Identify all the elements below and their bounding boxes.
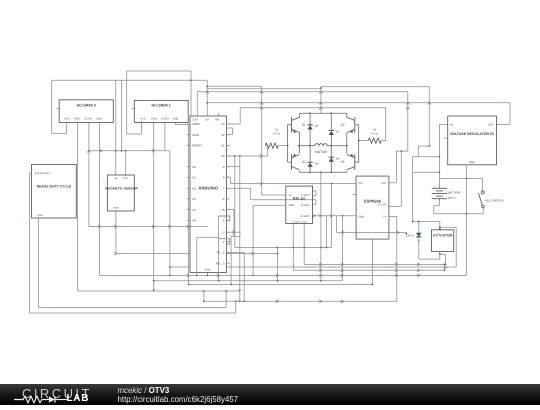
transistor Q1: [292, 117, 300, 133]
junction: [358, 140, 360, 142]
wire hop: [406, 102, 409, 105]
svg-text:ARDUINO: ARDUINO: [198, 186, 218, 191]
junction: [439, 253, 441, 255]
wire hop: [342, 231, 345, 234]
wire D2 cathode lead: [309, 146, 311, 163]
diode D1: [307, 125, 312, 130]
wire row ECHO1: [170, 266, 456, 268]
svg-text:GND: GND: [205, 269, 211, 272]
wire GND2 drop: [99, 123, 101, 276]
svg-text:A2: A2: [192, 186, 196, 190]
pin AREF stub: [187, 123, 190, 125]
svg-text:A1: A1: [192, 176, 196, 180]
svg-text:~10: ~10: [220, 154, 225, 158]
wire hop: [319, 102, 322, 105]
wire step: [417, 146, 419, 157]
junction: [439, 226, 441, 228]
HC-SR04 1 module U2: [134, 100, 188, 122]
wire R1 lead: [265, 145, 267, 147]
wire hop: [87, 150, 90, 153]
junction: [203, 290, 205, 292]
wire 12V row: [413, 221, 440, 223]
wire battery+ row: [413, 171, 440, 173]
wire U top: [440, 254, 446, 256]
wire Q2 base stub: [288, 161, 292, 163]
svg-text:TRIG: TRIG: [151, 118, 157, 121]
junction: [326, 247, 328, 249]
logo diode: [49, 396, 55, 402]
wire riser: [239, 156, 241, 301]
wire hop: [114, 225, 117, 228]
junction: [439, 156, 441, 158]
wire pin3 row: [226, 231, 240, 233]
wire 1SPDT jog: [313, 190, 317, 192]
pin ~3 stub: [226, 231, 230, 233]
wire Q3-Q4 base bar: [358, 125, 360, 162]
wire TX1 row: [226, 251, 244, 253]
junction: [303, 247, 305, 249]
wire step: [418, 145, 429, 147]
wire riser: [336, 216, 338, 233]
junction: [298, 145, 300, 147]
diode D3: [329, 130, 334, 135]
motor M1: [315, 144, 327, 146]
wire hop: [319, 91, 322, 94]
svg-text:D3: D3: [336, 131, 340, 134]
junction: [418, 221, 420, 223]
junction: [277, 280, 279, 282]
battery V1 12V: [432, 188, 447, 198]
svg-text:Vin: Vin: [215, 117, 219, 121]
wire esp gnd drop: [342, 216, 344, 281]
svg-text:BATTERY: BATTERY: [448, 191, 462, 195]
wire ECHO1 drop: [164, 123, 166, 151]
VOLTAGE REGULATOR U4: [448, 116, 497, 165]
wire U right: [445, 255, 447, 265]
pin 13 stub: [226, 123, 230, 125]
svg-text:D5: D5: [418, 240, 420, 243]
pin 4 stub: [226, 219, 230, 221]
svg-text:~5: ~5: [221, 208, 225, 212]
junction: [235, 300, 237, 302]
wire relay load1 drop: [292, 224, 294, 271]
svg-text:470 Ω: 470 Ω: [273, 132, 280, 135]
pin RESET stub: [187, 144, 190, 146]
wire hop: [260, 102, 263, 105]
wire hop: [417, 269, 420, 272]
resistor R1: [265, 143, 278, 148]
wire bridge bottom rail: [300, 171, 347, 173]
svg-text:AREF: AREF: [192, 122, 200, 126]
wire hop: [319, 269, 322, 272]
wire hop: [206, 91, 209, 94]
pin ~11 stub: [226, 144, 230, 146]
wire VCC2 to pin: [52, 132, 67, 134]
wire hop: [428, 102, 431, 105]
junction: [190, 79, 192, 81]
wire esp chpd riser: [400, 151, 402, 206]
wire relay 5V riser: [261, 86, 263, 195]
junction: [320, 171, 322, 173]
wire battery bottom lead: [438, 199, 440, 201]
svg-text:GND: GND: [173, 118, 179, 121]
wire pin10 row: [226, 155, 267, 157]
wire esp bottom pin2: [372, 239, 374, 284]
wire riser: [234, 156, 236, 248]
wire hop: [251, 252, 254, 255]
wire pin5 row: [226, 209, 234, 211]
wire pin9 row: [226, 166, 239, 168]
wire switch bottom: [482, 209, 484, 214]
wire hop: [341, 274, 344, 277]
wire Q4 column: [346, 146, 348, 154]
wire D3 anode lead: [330, 135, 332, 146]
svg-text:RELAY: RELAY: [293, 197, 306, 201]
svg-text:GND: GND: [192, 133, 198, 137]
wire hop: [319, 274, 322, 277]
wire: [239, 108, 241, 124]
pin A4 stub: [187, 209, 190, 211]
wire bottom row: [434, 213, 483, 215]
svg-text:470 Ω: 470 Ω: [371, 132, 378, 135]
junction: [121, 150, 123, 152]
wire sensor GND row: [116, 253, 278, 255]
wire pin7 row: [226, 187, 250, 189]
svg-text:~6: ~6: [221, 197, 225, 201]
svg-text:HC-SR04 2: HC-SR04 2: [76, 103, 95, 107]
wire Q1 emitter column: [299, 133, 301, 146]
junction: [330, 112, 332, 114]
wire pin2 jog: [219, 239, 230, 244]
junction: [234, 155, 236, 157]
wire hop: [276, 274, 279, 277]
wire row GND: [100, 274, 467, 276]
wire D1 cathode lead: [309, 113, 311, 125]
wire R1 riser: [267, 146, 269, 156]
wire ECHO2 row: [89, 226, 208, 228]
wire riser: [439, 254, 441, 259]
wire hop: [319, 263, 322, 266]
svg-text:RESET: RESET: [192, 144, 202, 148]
wire hop: [114, 252, 117, 255]
logo resistor squiggle: [14, 396, 49, 402]
wire diode row: [419, 258, 440, 260]
READS DUTY CYCLE block U8: [32, 164, 77, 218]
junction: [320, 87, 322, 89]
wire RDC gnd drop: [38, 218, 40, 307]
wire relay 5V: [262, 194, 286, 196]
svg-text:D4: D4: [336, 158, 340, 161]
wire to actuator pin: [439, 222, 441, 230]
junction: [239, 155, 241, 157]
wire row RDC-GND: [39, 306, 227, 308]
wire hop: [260, 107, 263, 110]
svg-text:R1: R1: [275, 129, 279, 132]
wire hop: [395, 263, 398, 266]
wire pulse drop: [29, 173, 31, 313]
wire R2 riser: [385, 108, 387, 141]
wire riser: [225, 291, 227, 307]
wire row B: [189, 283, 373, 285]
svg-text:RX: RX: [359, 182, 363, 185]
wire hop: [319, 300, 322, 303]
wire Q1-Q2 base bar: [287, 125, 289, 162]
svg-text:OUT: OUT: [123, 177, 129, 180]
actuator top pin mark: [439, 228, 442, 230]
svg-text:A5: A5: [192, 219, 196, 223]
wire GND pin drop: [207, 273, 209, 276]
pin A2 stub: [187, 187, 190, 189]
wire hop: [187, 225, 190, 228]
wire motor rail right: [327, 145, 347, 147]
wire 12V bus west: [207, 88, 321, 90]
wire riser: [121, 80, 123, 151]
junction: [330, 171, 332, 173]
wire riser: [230, 236, 232, 284]
svg-text:5V: 5V: [289, 194, 292, 197]
wire hop: [99, 149, 102, 152]
svg-text:Q1: Q1: [302, 124, 306, 127]
wire 2SPDT jog: [315, 200, 317, 205]
svg-text:A0: A0: [192, 165, 196, 169]
wire esp tx riser: [396, 216, 398, 301]
wire bridge bottom drop: [320, 172, 322, 280]
svg-text:A4: A4: [192, 208, 196, 212]
diode D5 12V indicator: [416, 233, 421, 237]
ESP8266 U6: [356, 176, 389, 239]
svg-text:TX→1: TX→1: [216, 251, 225, 255]
footer bar: [0, 384, 540, 405]
wire 12V bus jog: [320, 87, 322, 89]
svg-text:READS DUTY CYCLE: READS DUTY CYCLE: [37, 184, 72, 188]
wire esp vcc riser: [395, 151, 397, 183]
diode D4: [329, 157, 334, 162]
svg-text:R2: R2: [373, 129, 377, 132]
junction: [400, 150, 402, 152]
junction: [225, 290, 227, 292]
wire hop: [312, 214, 315, 217]
svg-text:D2: D2: [315, 163, 319, 166]
junction: [230, 284, 232, 286]
wire RX row2: [332, 183, 357, 185]
wire esp vcc: [389, 182, 397, 184]
wire motor rail left: [300, 145, 315, 147]
wire hop: [217, 274, 220, 277]
wire D2 anode lead: [309, 167, 311, 173]
svg-text:TRIG: TRIG: [74, 118, 80, 121]
svg-text:ACTUATOR: ACTUATOR: [433, 233, 453, 237]
pin RX←0 stub: [226, 262, 230, 264]
pin ~5 stub: [226, 209, 230, 211]
junction: [169, 275, 171, 277]
resistor R2: [368, 138, 381, 143]
wire row TRIG2: [77, 290, 239, 292]
wire 12V drop: [412, 157, 414, 222]
svg-text:TX: TX: [383, 216, 387, 219]
wire: [190, 71, 192, 80]
author / title: [118, 386, 170, 395]
svg-text:ECHO: ECHO: [161, 118, 169, 121]
junction: [287, 145, 289, 147]
wire hop: [319, 107, 322, 110]
svg-text:13: 13: [221, 122, 225, 126]
junction: [372, 284, 374, 286]
wire pin8 jog: [226, 176, 230, 178]
wire hop: [330, 214, 333, 217]
svg-text:MOTOR: MOTOR: [315, 150, 328, 154]
wire load bus: [235, 247, 332, 249]
svg-text:MAGNETIC SENSOR: MAGNETIC SENSOR: [105, 186, 138, 190]
wire 12V riser: [428, 87, 430, 146]
wire row TX: [204, 300, 397, 302]
wire pin2 inner run: [197, 236, 219, 238]
wire 12V bus riser: [206, 80, 208, 116]
wire VCC1 loop rail: [126, 71, 128, 134]
junction: [466, 213, 468, 215]
wire 3SPDT row: [313, 215, 357, 217]
svg-text:D1: D1: [315, 125, 319, 128]
wire hop: [396, 231, 399, 234]
junction: [206, 102, 208, 104]
wire sensor GND drop: [115, 211, 117, 254]
wire diode tail: [418, 237, 420, 259]
wire TRIG1 drop: [153, 123, 155, 291]
pin A5 stub: [187, 219, 190, 221]
wire bridge top riser: [320, 89, 322, 114]
wire flag drop: [405, 232, 407, 233]
wire 2SPDT jog: [313, 203, 316, 205]
wire Q3 collector column: [346, 113, 348, 117]
svg-text:A3: A3: [192, 197, 196, 201]
wire hop: [444, 266, 447, 269]
wire row: [304, 263, 445, 265]
svg-text:12: 12: [221, 133, 225, 137]
junction: [330, 145, 332, 147]
wire diode drop: [418, 222, 420, 233]
wire hop: [152, 225, 155, 228]
wire: [176, 124, 189, 126]
wire pin8 jog: [230, 177, 232, 183]
wire battery top lead: [438, 186, 440, 188]
ACTUATOR U9: [432, 230, 454, 252]
junction: [292, 247, 294, 249]
junction: [309, 112, 311, 114]
svg-text:CH_PD: CH_PD: [378, 203, 387, 206]
wire hop: [276, 300, 279, 303]
wire hop: [406, 107, 409, 110]
wire Q3 base stub: [355, 124, 359, 126]
pin A0 stub: [187, 166, 190, 168]
junction: [444, 269, 446, 271]
svg-text:12V V: 12V V: [406, 234, 414, 238]
wire R2 lead: [359, 140, 368, 142]
wire actuator top row: [440, 226, 456, 228]
junction: [309, 145, 311, 147]
RELAY U5: [286, 186, 313, 223]
wire pin13: [226, 123, 240, 125]
wire riser: [325, 216, 327, 248]
wire Q2 column: [299, 146, 301, 154]
wire battery+ top: [439, 177, 482, 179]
wire VCC2 loop rail: [51, 80, 53, 133]
wire 3.3V bus: [197, 91, 407, 93]
wire hop: [152, 149, 155, 152]
svg-text:RX←0: RX←0: [216, 261, 225, 265]
junction: [346, 145, 348, 147]
wire row: [293, 269, 444, 271]
junction: [207, 275, 209, 277]
junction: [406, 233, 408, 235]
wire hop: [260, 155, 263, 158]
wire: [233, 210, 235, 237]
svg-text:GND: GND: [289, 204, 295, 207]
junction: [218, 280, 220, 282]
svg-text:Q3: Q3: [341, 124, 345, 127]
wire 5V bus: [207, 102, 510, 104]
wire: [433, 206, 435, 214]
wire 3v3 drop: [407, 92, 409, 151]
junction: [428, 145, 430, 147]
pin 12 stub: [226, 134, 230, 136]
pin A1 stub: [187, 177, 190, 179]
junction: [153, 289, 155, 291]
junction: [125, 150, 127, 152]
wire row PULSE: [30, 312, 236, 314]
wire D1 anode lead: [309, 129, 311, 145]
wire esp chpd: [389, 205, 401, 207]
junction: [153, 280, 155, 282]
svg-text:Q4: Q4: [341, 161, 345, 164]
wire riser: [235, 301, 237, 313]
junction: [331, 183, 333, 185]
wire hop: [341, 263, 344, 266]
wire pin12 jog: [226, 127, 232, 129]
kill switch SW1: [478, 191, 484, 209]
wire jog: [239, 232, 241, 236]
junction: [206, 86, 208, 88]
wire hop: [395, 269, 398, 272]
wire Q1 base stub: [288, 124, 292, 126]
wire D4 anode lead: [330, 162, 332, 173]
wire bus: [240, 107, 386, 109]
pin stub: [353, 194, 357, 196]
svg-text:VOLTAGE REGULATOR 5V: VOLTAGE REGULATOR 5V: [450, 132, 495, 136]
wire: [250, 188, 252, 200]
wire row: [203, 291, 205, 301]
wire: [434, 205, 440, 207]
wire VCC1 to pin: [127, 133, 142, 135]
wire echo row: [89, 150, 165, 152]
pin Vin stub: [217, 113, 219, 116]
wire riser: [277, 248, 279, 281]
wire battery- drop: [438, 201, 440, 206]
wire 12V bus east: [321, 86, 429, 88]
wire sensor riser: [115, 80, 117, 175]
pin 7 stub: [226, 187, 230, 189]
wire pin4 jog: [219, 216, 230, 220]
svg-text:PULSE INPUT: PULSE INPUT: [35, 172, 51, 175]
wire R1 lead: [278, 145, 287, 147]
svg-text:~11: ~11: [220, 144, 225, 148]
junction: [243, 300, 245, 302]
wire riser: [331, 184, 333, 248]
wire reg GND drop: [466, 165, 468, 276]
junction: [444, 264, 446, 266]
wire pin12 jog: [232, 128, 234, 135]
junction: [115, 150, 117, 152]
wire 5V riser to regulator OUT: [509, 103, 511, 125]
svg-text:GND: GND: [96, 118, 102, 121]
